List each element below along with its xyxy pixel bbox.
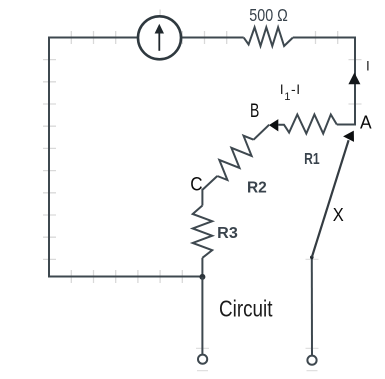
ticks on left wire: [43, 60, 56, 260]
wire top left segment: [48, 37, 138, 39]
svg-text:R1: R1: [304, 151, 320, 168]
svg-text:B: B: [250, 101, 259, 122]
svg-text:500 Ω: 500 Ω: [249, 5, 287, 25]
svg-text:I1-I: I1-I: [280, 81, 301, 103]
wire right terminal vertical: [311, 257, 313, 355]
svg-text:I: I: [366, 58, 370, 73]
resistor R3 zigzag: [193, 206, 213, 258]
bend dot on X probe: [310, 255, 314, 259]
wire R2 to C: [203, 176, 218, 190]
svg-text:Circuit: Circuit: [219, 296, 273, 322]
current source U1: [138, 16, 181, 59]
right terminal open circle: [307, 356, 316, 365]
wire right vertical: [354, 37, 356, 125]
svg-text:C: C: [190, 174, 202, 195]
resistor 500 ohm zigzag: [244, 27, 293, 46]
ticks on lower terminal wires: [196, 259, 319, 370]
svg-text:A: A: [360, 112, 372, 133]
ticks on right wire: [349, 60, 362, 104]
wire C to R3: [201, 189, 203, 206]
left terminal open circle: [198, 355, 207, 364]
arrowhead X pointing at node A: [343, 131, 354, 142]
grid ticks: [43, 10, 362, 371]
wire top right segment: [293, 37, 356, 39]
arrowhead I1-I pointing left at node B: [269, 119, 278, 131]
resistor R1 zigzag: [278, 115, 337, 134]
current arrow I on right wire: [348, 73, 360, 85]
wire left vertical: [48, 38, 50, 277]
wire bottom horizontal: [48, 276, 202, 278]
wire R1 right stub: [337, 124, 356, 126]
wire top mid segment: [182, 37, 244, 39]
svg-text:X: X: [333, 204, 344, 225]
probe line X: [312, 140, 349, 257]
wire R3 to junction: [201, 258, 203, 277]
svg-text:R3: R3: [217, 225, 238, 242]
wire B to R2: [254, 125, 270, 140]
ticks on bottom wire: [71, 270, 182, 283]
svg-text:R2: R2: [247, 180, 267, 197]
junction node dot: [199, 274, 205, 280]
resistor R2 zigzag: [217, 136, 253, 180]
wire junction to left terminal: [201, 277, 203, 354]
ticks on top wire: [71, 10, 337, 45]
